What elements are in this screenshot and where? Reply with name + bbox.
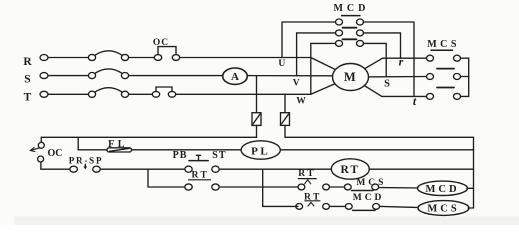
wire MCS star bus: [461, 58, 469, 96]
contact RT timed a (MCS rung): [296, 202, 330, 209]
wire t row: [382, 95, 427, 97]
wire MCD pair3 left to T: [311, 43, 336, 94]
wire MCS rung from riser: [263, 205, 298, 207]
MCS bridge bar 1: [437, 68, 454, 70]
svg-text:MCS: MCS: [427, 204, 459, 215]
fuse F1 drop from S: [256, 76, 258, 113]
RT coil: [331, 159, 369, 179]
switch KS blade T: [88, 88, 128, 98]
pushbutton ST: [185, 155, 219, 172]
wire R phase left: [48, 57, 88, 59]
fuse F1: [252, 113, 261, 126]
MCD pair1: [336, 19, 364, 25]
wire MCD pair3 right to s: [364, 43, 387, 76]
MCS pair1: [427, 55, 461, 61]
contact RT timed a (MCD rung): [298, 180, 330, 190]
svg-text:S: S: [24, 74, 30, 86]
bottom scan band: [14, 217, 519, 226]
wire rail ST to RT coil: [219, 168, 331, 170]
wire S phase left: [48, 75, 88, 77]
svg-text:OC: OC: [48, 148, 63, 159]
wire RT contact to MCS contact: [330, 186, 345, 188]
wire FL to PL: [132, 149, 242, 151]
wire F2 to row A right: [284, 125, 286, 137]
wire MCD pair1 right to t: [364, 22, 415, 96]
wire T mid: [129, 93, 153, 95]
svg-text:A: A: [231, 71, 239, 83]
wire MCD pair1 left to R: [282, 22, 336, 58]
PR-SP contact: [70, 164, 101, 172]
lamp PL: [241, 141, 280, 159]
wire row A left segment: [41, 136, 256, 138]
contact MCS b (MCD rung): [344, 184, 378, 190]
wire MCD coil to bus: [467, 187, 474, 189]
svg-text:T: T: [24, 92, 32, 104]
wire F1 to row A left: [256, 125, 258, 137]
coil MCD: [418, 181, 468, 195]
contact RT holding: [185, 184, 219, 190]
wire to MCS coil: [380, 206, 422, 207]
wire MCS coil to bus: [468, 207, 474, 209]
wire rail OC to PR-SP: [41, 168, 70, 170]
wire holding row to riser and MCD rung: [219, 186, 298, 188]
node R terminal: [40, 55, 48, 61]
svg-text:RT: RT: [191, 171, 209, 181]
wire motor fan upper-left: [311, 58, 351, 78]
wire RT coil to bus: [369, 168, 473, 170]
MCD pair2: [336, 30, 364, 36]
wire row A right segment to bus: [285, 137, 474, 208]
svg-text:U: U: [278, 59, 285, 69]
svg-text:FL: FL: [108, 139, 128, 150]
wire S mid: [129, 75, 223, 77]
coil MCS: [418, 201, 469, 216]
fuse F2 drop from T: [284, 94, 286, 112]
switch KS blade S: [88, 69, 128, 79]
wire R mid: [129, 57, 155, 59]
wire motor fan lower-right: [351, 77, 382, 96]
MCD pair3: [336, 40, 364, 46]
wire PL to bus: [280, 149, 473, 151]
wire motor fan mid-right / s row: [351, 76, 427, 79]
svg-text:R: R: [23, 56, 32, 68]
fuse FL: [107, 148, 132, 152]
OC control contact: [30, 137, 44, 169]
MCD bridge bar 1: [343, 27, 357, 29]
svg-text:W: W: [296, 97, 306, 107]
wire RT to MCD-b contact: [330, 205, 346, 207]
motor M body: [333, 64, 369, 91]
MCS pair2: [427, 74, 461, 80]
MCD bridge bar 2: [343, 38, 357, 40]
OC heater T: [152, 87, 175, 97]
wire MCD pair2 left to S: [297, 33, 336, 76]
svg-text:M: M: [344, 70, 356, 84]
svg-text:PR-SP: PR-SP: [69, 155, 104, 165]
svg-text:MCD: MCD: [425, 184, 459, 195]
svg-text:PB: PB: [173, 150, 188, 161]
wire to MCD coil: [379, 187, 421, 190]
OC heater R: [154, 47, 179, 61]
contact MCD b (MCS rung): [345, 204, 379, 211]
wire S right to motor: [247, 75, 335, 77]
svg-text:MCS: MCS: [356, 178, 386, 188]
wire R right: [180, 57, 311, 59]
node T terminal: [40, 91, 48, 97]
svg-text:PL: PL: [251, 145, 270, 157]
svg-text:r: r: [399, 54, 404, 68]
switch KS blade R: [88, 51, 128, 61]
svg-text:ST: ST: [212, 150, 226, 161]
wire MCD pair2 right to r: [364, 33, 401, 58]
ammeter A: [223, 68, 248, 84]
wire FL drop: [78, 137, 107, 150]
svg-text:RT: RT: [298, 169, 316, 179]
svg-text:MCD: MCD: [333, 3, 369, 14]
fuse F2: [281, 113, 290, 126]
wire motor fan lower-left: [311, 77, 351, 94]
svg-text:S: S: [384, 78, 390, 89]
svg-text:V: V: [293, 79, 300, 89]
wire riser: [262, 169, 264, 206]
wire T phase left: [48, 93, 88, 95]
MCS bridge bar 2: [437, 87, 454, 89]
wire MCS pair2 right stub: [461, 76, 469, 78]
svg-text:RT: RT: [341, 164, 361, 176]
wire T right: [176, 93, 311, 95]
svg-text:MCD: MCD: [353, 193, 385, 203]
wire motor fan upper-right: [351, 58, 383, 77]
wire rail PR-SP to ST: [100, 168, 185, 170]
svg-text:OC: OC: [153, 38, 169, 48]
wire r row: [383, 57, 427, 59]
wire holding branch: [148, 169, 185, 187]
node S terminal: [40, 73, 48, 79]
svg-text:MCS: MCS: [427, 39, 460, 50]
MCS pair3: [427, 93, 461, 99]
